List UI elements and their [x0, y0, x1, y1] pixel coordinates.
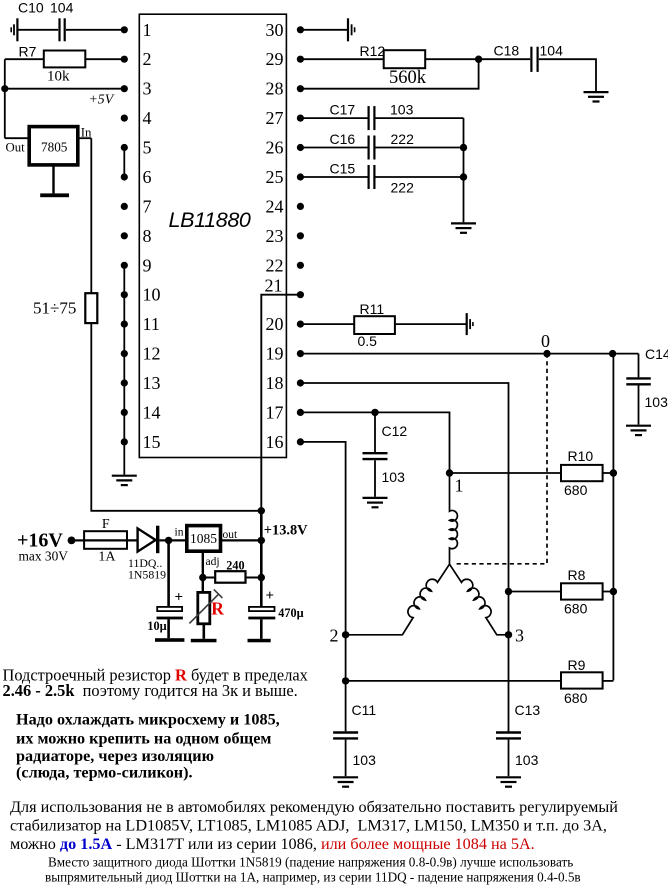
svg-text:3: 3: [143, 79, 152, 99]
wire adj stem: [202, 551, 204, 592]
wire pin3 (+5V): [5, 88, 125, 90]
winding phase 1 (vertical coil): [450, 473, 458, 564]
ground under C15-C17: [451, 223, 476, 232]
svg-text:51÷75: 51÷75: [33, 299, 76, 318]
svg-text:22: 22: [266, 255, 284, 275]
wire pins9-15 chain to ground: [123, 265, 125, 474]
wire pin17 to node1 column: [300, 412, 449, 473]
svg-text:max 30V: max 30V: [19, 549, 69, 564]
wire pin21 to +13.8V rail: [261, 295, 300, 511]
resistor 51÷75: [85, 293, 97, 323]
node junction on +5V line: [1, 85, 8, 92]
svg-text:4: 4: [143, 108, 152, 128]
svg-text:+5V: +5V: [89, 91, 115, 106]
svg-text:104: 104: [50, 0, 74, 16]
svg-text:LB11880: LB11880: [169, 208, 251, 232]
ground right of R11 (sideways): [467, 313, 473, 335]
wire pin27 to C17: [300, 117, 367, 119]
capacitor C 470µ: [248, 588, 303, 620]
wire C12 stem: [374, 412, 376, 452]
wire 470µ to ground: [260, 619, 263, 638]
svg-text:R11: R11: [360, 301, 385, 317]
resistor R8: [561, 583, 603, 599]
wire C11 stem: [345, 681, 347, 731]
wire 10µ to ground: [167, 619, 170, 638]
svg-text:Для использования не в автомоб: Для использования не в автомобилях реком…: [10, 798, 618, 816]
pin dots right side pins 30-16: [297, 26, 304, 445]
svg-text:R10: R10: [568, 448, 594, 464]
ground left of C10 (sideways): [11, 18, 17, 41]
svg-text:18: 18: [266, 373, 284, 393]
svg-text:C10: C10: [18, 0, 44, 16]
wire 7805 In rail down to resistor: [90, 138, 92, 293]
svg-text:2: 2: [143, 49, 152, 69]
capacitor C13: [496, 733, 521, 739]
svg-text:(слюда, термо-силикон).: (слюда, термо-силикон).: [16, 764, 193, 782]
svg-text:5: 5: [143, 138, 152, 158]
fuse F 1A: [84, 531, 127, 549]
wire common column C15-C17 to ground: [463, 118, 465, 222]
svg-text:19: 19: [266, 344, 284, 364]
svg-text:C13: C13: [515, 702, 541, 718]
wire trimmer to ground: [203, 624, 206, 639]
svg-text:470µ: 470µ: [278, 606, 303, 620]
svg-text:13: 13: [143, 373, 161, 393]
svg-text:7805: 7805: [41, 139, 68, 154]
svg-text:104: 104: [540, 43, 564, 59]
svg-text:8: 8: [143, 226, 152, 246]
svg-text:24: 24: [266, 196, 284, 216]
ground under C14: [626, 426, 651, 435]
svg-text:+: +: [266, 588, 275, 604]
svg-text:+13.8V: +13.8V: [264, 523, 308, 539]
node junction right rail top: [609, 350, 616, 357]
wire node2 column to R9: [346, 680, 561, 682]
svg-text:2: 2: [330, 626, 339, 646]
text note cooling (bold block): [16, 711, 280, 782]
svg-text:25: 25: [266, 167, 284, 187]
svg-text:10k: 10k: [47, 69, 70, 85]
svg-text:103: 103: [390, 102, 414, 118]
svg-text:103: 103: [645, 394, 668, 410]
diode VD1 Schottky: [138, 526, 158, 554]
capacitor C11: [333, 733, 358, 739]
wire right rail vertical: [612, 354, 614, 681]
svg-text:радиаторе, через изоляцию: радиаторе, через изоляцию: [16, 747, 214, 765]
node junction 240/rail: [258, 574, 265, 581]
winding phase 3 (right coil): [450, 564, 509, 635]
wire C11 to ground: [345, 740, 347, 777]
svg-text:1: 1: [143, 20, 152, 40]
wire R10 to right rail: [603, 472, 614, 474]
wire pin16 to node2 column: [300, 442, 345, 681]
node junction R8 left: [505, 588, 512, 595]
wire vertical left rail: [4, 59, 6, 138]
wire node1 to R10: [450, 472, 562, 474]
svg-text:23: 23: [266, 226, 284, 246]
node junction C12 tap: [371, 409, 378, 416]
svg-text:222: 222: [391, 131, 415, 147]
wire pin26 to C16: [300, 147, 367, 149]
wire R8 to right rail: [603, 591, 614, 593]
svg-text:28: 28: [266, 79, 284, 99]
node junction +13.8V top: [258, 507, 265, 514]
svg-text:16: 16: [266, 432, 284, 452]
node 2: [342, 631, 349, 638]
svg-text:17: 17: [266, 402, 284, 422]
wire 7805 in to right: [78, 137, 92, 139]
ground bar under trimmer: [191, 639, 217, 643]
svg-text:R12: R12: [360, 43, 386, 59]
ground bar under 10µ: [155, 638, 184, 642]
svg-text:6: 6: [143, 167, 152, 187]
svg-text:R9: R9: [568, 657, 586, 673]
resistor R10: [561, 465, 603, 481]
wire node3 column to R8: [509, 591, 562, 593]
svg-text:Out: Out: [6, 140, 26, 154]
IC U1 LB11880 body: [139, 14, 286, 457]
svg-text:3: 3: [515, 626, 524, 646]
dashed link node 0 to star centre: [454, 354, 548, 564]
svg-text:C18: C18: [494, 43, 520, 59]
wire C18 to ground: [539, 59, 596, 91]
capacitor C18: [531, 47, 537, 72]
node junction C16 column: [460, 144, 467, 151]
svg-text:20: 20: [266, 314, 284, 334]
node 0: [543, 350, 550, 357]
wire C17 right: [375, 117, 463, 119]
svg-text:103: 103: [353, 752, 377, 768]
wire 1085 out to rail: [221, 539, 262, 541]
wire C13 to ground: [508, 740, 510, 777]
svg-text:240: 240: [226, 558, 244, 572]
ground under pins 9-15: [112, 476, 137, 485]
svg-text:560k: 560k: [389, 68, 427, 88]
svg-text:7: 7: [143, 196, 152, 216]
wire 7805 ground stem: [52, 165, 54, 194]
regulator 7805: [29, 127, 78, 165]
ground under C13: [496, 777, 521, 786]
svg-text:0.5: 0.5: [358, 333, 378, 349]
svg-text:стабилизатор на LD1085V, LT108: стабилизатор на LD1085V, LT1085, LM1085 …: [10, 817, 607, 835]
svg-text:12: 12: [143, 344, 161, 364]
text footnote diode: [45, 855, 581, 885]
wire pin20 to R11: [300, 323, 354, 325]
capacitor C10: [60, 18, 65, 41]
svg-text:9: 9: [143, 255, 152, 275]
trimmer resistor R (red): [189, 589, 222, 623]
wire adj to 240: [203, 577, 215, 579]
svg-text:C16: C16: [330, 131, 356, 147]
resistor 240: [215, 571, 245, 583]
wire pin18 to node3 column: [300, 383, 508, 732]
svg-text:R8: R8: [568, 567, 586, 583]
svg-text:C12: C12: [382, 423, 408, 439]
node 1: [446, 469, 453, 476]
resistor R12: [384, 50, 426, 68]
svg-text:26: 26: [266, 138, 284, 158]
wire pin28 up to node: [300, 59, 478, 88]
svg-text:222: 222: [391, 180, 415, 196]
svg-text:C14: C14: [645, 346, 668, 362]
node junction R8 right: [610, 588, 617, 595]
svg-text:C15: C15: [330, 161, 356, 177]
pin dots left side pins 1-15: [121, 26, 128, 445]
svg-text:680: 680: [564, 690, 588, 706]
wire input to fuse: [72, 539, 85, 541]
wire +13.8 rail down to 470µ: [260, 511, 263, 607]
text paragraph regulators: [10, 798, 618, 853]
capacitor C17: [369, 106, 375, 130]
capacitor C15: [369, 165, 375, 189]
node junction adj: [199, 574, 206, 581]
regulator 1085: [187, 526, 221, 552]
wire pin30 to ground: [300, 29, 348, 31]
svg-text:14: 14: [143, 402, 161, 422]
ground under C11: [333, 777, 358, 786]
wire C16 right: [375, 147, 463, 149]
svg-text:10µ: 10µ: [147, 619, 166, 633]
wire C12 to ground: [374, 460, 376, 497]
svg-text:1N5819: 1N5819: [128, 567, 166, 581]
wire pin1 to C10: [17, 29, 58, 31]
wire pin25 to C15: [300, 176, 367, 178]
svg-text:103: 103: [515, 752, 539, 768]
wire 10µ stem: [167, 540, 170, 606]
svg-text:10: 10: [143, 285, 161, 305]
winding phase 2 (left coil): [346, 564, 450, 635]
svg-text:1085: 1085: [190, 531, 217, 546]
node junction R12/C18/pin28: [475, 56, 482, 63]
wire pin19 node 0 line: [300, 353, 638, 355]
resistor R7: [44, 51, 86, 68]
svg-text:можно до 1.5А - LM317T или из: можно до 1.5А - LM317T или из серии 1086…: [10, 835, 535, 853]
svg-text:27: 27: [266, 108, 284, 128]
wire R12 to C18 node: [425, 58, 530, 60]
svg-text:11: 11: [143, 314, 160, 334]
svg-text:adj: adj: [206, 556, 220, 568]
svg-text:их можно крепить на одном обще: их можно крепить на одном общем: [16, 729, 271, 747]
ground under C12: [363, 498, 388, 507]
svg-text:in: in: [175, 526, 184, 538]
wire R7 left to corner: [5, 58, 44, 60]
svg-text:R7: R7: [19, 44, 37, 60]
ground bar under 470µ: [248, 639, 271, 643]
wire C10 to pin1: [66, 29, 124, 31]
svg-text:680: 680: [564, 482, 588, 498]
node junction C11 / R9 tap: [342, 677, 349, 684]
svg-text:29: 29: [266, 49, 284, 69]
pin numbers right 30-16: [265, 20, 284, 452]
node junction out/rail: [258, 537, 265, 544]
wire R11 to ground: [395, 323, 467, 325]
wire 240 to rail: [246, 577, 262, 579]
svg-text:C11: C11: [352, 702, 377, 718]
node junction R10 right: [610, 469, 617, 476]
wire 7805 out to left rail: [5, 137, 29, 139]
svg-text:21: 21: [265, 275, 283, 295]
capacitor C16: [369, 136, 375, 160]
svg-text:C17: C17: [330, 102, 356, 118]
svg-text:1: 1: [455, 476, 464, 496]
ground under C18: [584, 92, 609, 101]
wire R7 to pin2: [85, 58, 124, 60]
svg-text:F: F: [102, 517, 110, 532]
capacitor C14: [626, 378, 651, 384]
svg-text:1A: 1A: [98, 549, 116, 564]
wire diode to 1085: [159, 539, 186, 541]
svg-text:30: 30: [266, 20, 284, 40]
ground right of pin30 (sideways): [348, 18, 355, 41]
node 3: [505, 631, 512, 638]
node input terminal: [68, 537, 76, 545]
wire C14 to ground: [638, 386, 640, 425]
node junction diode/10µ: [165, 537, 172, 544]
svg-text:R: R: [211, 599, 224, 619]
wire corner down to C14: [638, 354, 640, 378]
svg-text:15: 15: [143, 432, 161, 452]
wire pin29 to R12: [300, 58, 383, 60]
ground bar under 7805: [40, 193, 69, 197]
wire R9 to right rail corner: [603, 680, 614, 682]
resistor R11: [354, 316, 395, 334]
svg-text:0: 0: [541, 331, 550, 351]
svg-text:Вместо защитного диода Шоттки: Вместо защитного диода Шоттки 1N5819 (па…: [48, 855, 573, 870]
svg-text:выпрямительный диод Шоттки на: выпрямительный диод Шоттки на 1А, наприм…: [45, 870, 581, 885]
svg-text:103: 103: [382, 469, 406, 485]
wire pins5-6 link: [123, 148, 125, 178]
svg-text:Надо охлаждать микросхему и 10: Надо охлаждать микросхему и 1085,: [16, 711, 280, 729]
wire resistor down to +13.8 rail corner: [91, 323, 261, 511]
capacitor C 10µ: [147, 590, 183, 633]
capacitor C12: [363, 453, 388, 459]
svg-text:+: +: [175, 590, 184, 606]
pin numbers left 1-15: [143, 20, 161, 452]
wire C15 right: [375, 176, 463, 178]
node junction C15 column: [460, 173, 467, 180]
svg-text:2.46 - 2.5k поэтому годится н: 2.46 - 2.5k поэтому годится на 3к и выше…: [3, 681, 298, 700]
svg-text:680: 680: [564, 601, 588, 617]
resistor R9: [561, 672, 603, 688]
